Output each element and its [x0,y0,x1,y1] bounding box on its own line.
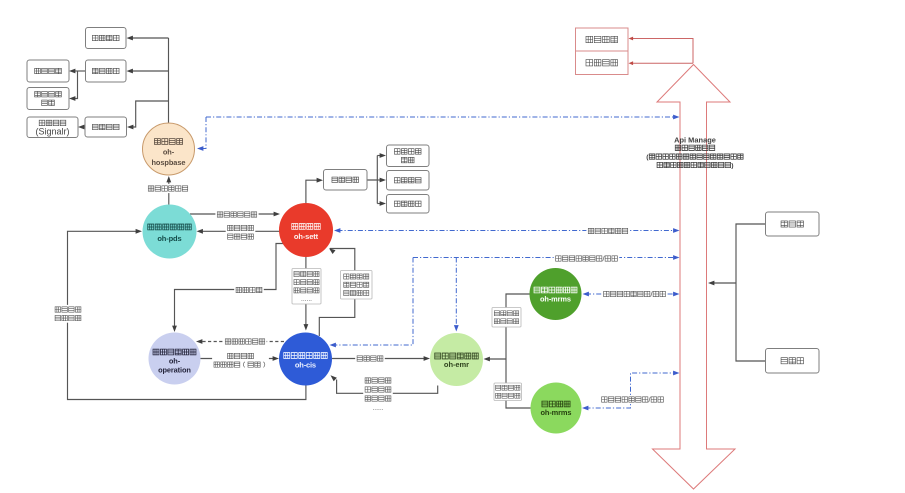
svg-text:oh-emr: oh-emr [444,360,469,369]
svg-text:): ) [731,162,733,169]
svg-text:hospbase: hospbase [151,158,185,167]
svg-text:(: ( [646,154,649,161]
svg-text:......: ...... [372,405,383,412]
svg-text:oh-mrms: oh-mrms [540,295,571,304]
svg-text:oh-sett: oh-sett [294,232,319,241]
svg-text:oh-mrms: oh-mrms [541,408,572,417]
svg-text:Api Manage: Api Manage [674,136,716,145]
svg-text:(Signalr): (Signalr) [36,127,70,137]
svg-text:oh-: oh- [163,148,175,157]
svg-text:......: ...... [301,296,312,303]
svg-text:oh-: oh- [169,357,181,366]
svg-text:operation: operation [158,366,191,375]
svg-text:oh-pds: oh-pds [157,234,181,243]
svg-text:oh-cis: oh-cis [295,361,316,370]
